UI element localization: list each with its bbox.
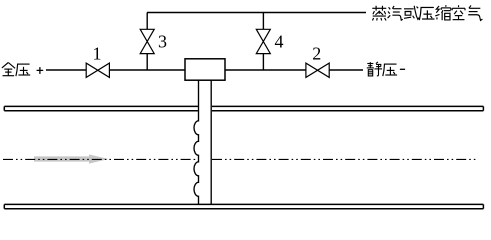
text: quan ya + (total pressure) xyxy=(2,63,43,77)
wire: drop from top line to valve 3 xyxy=(146,13,148,30)
svg-text:1: 1 xyxy=(93,44,102,64)
wire: static pressure lead-out xyxy=(329,69,363,71)
svg-text:4: 4 xyxy=(275,32,284,52)
svg-text:3: 3 xyxy=(158,32,167,52)
valve 1 xyxy=(86,63,109,77)
probe right line xyxy=(210,80,212,204)
svg-text:2: 2 xyxy=(312,44,321,64)
wire: transmitter to valve 2 xyxy=(225,69,306,71)
probe left line with sensing ports xyxy=(194,80,199,204)
valve 4 xyxy=(256,29,270,53)
wire: steam supply top line xyxy=(147,12,366,14)
pipe top wall xyxy=(4,106,483,110)
flow arrow xyxy=(34,154,109,163)
valve 3 xyxy=(140,29,154,53)
valve 2 xyxy=(306,63,329,77)
wire: valve 4 to main line xyxy=(262,54,264,70)
wire: valve 1 to transmitter xyxy=(109,69,185,71)
wire: valve 3 to main line xyxy=(146,54,148,70)
text: jing ya - (static pressure) xyxy=(367,62,405,76)
pipe centerline xyxy=(3,158,476,160)
pipe bottom wall xyxy=(4,204,483,208)
wire: drop from top line to valve 4 xyxy=(262,13,264,30)
wire: total pressure lead-in xyxy=(46,69,86,71)
transmitter box xyxy=(185,59,225,80)
text: steam or compressed air xyxy=(372,5,482,20)
